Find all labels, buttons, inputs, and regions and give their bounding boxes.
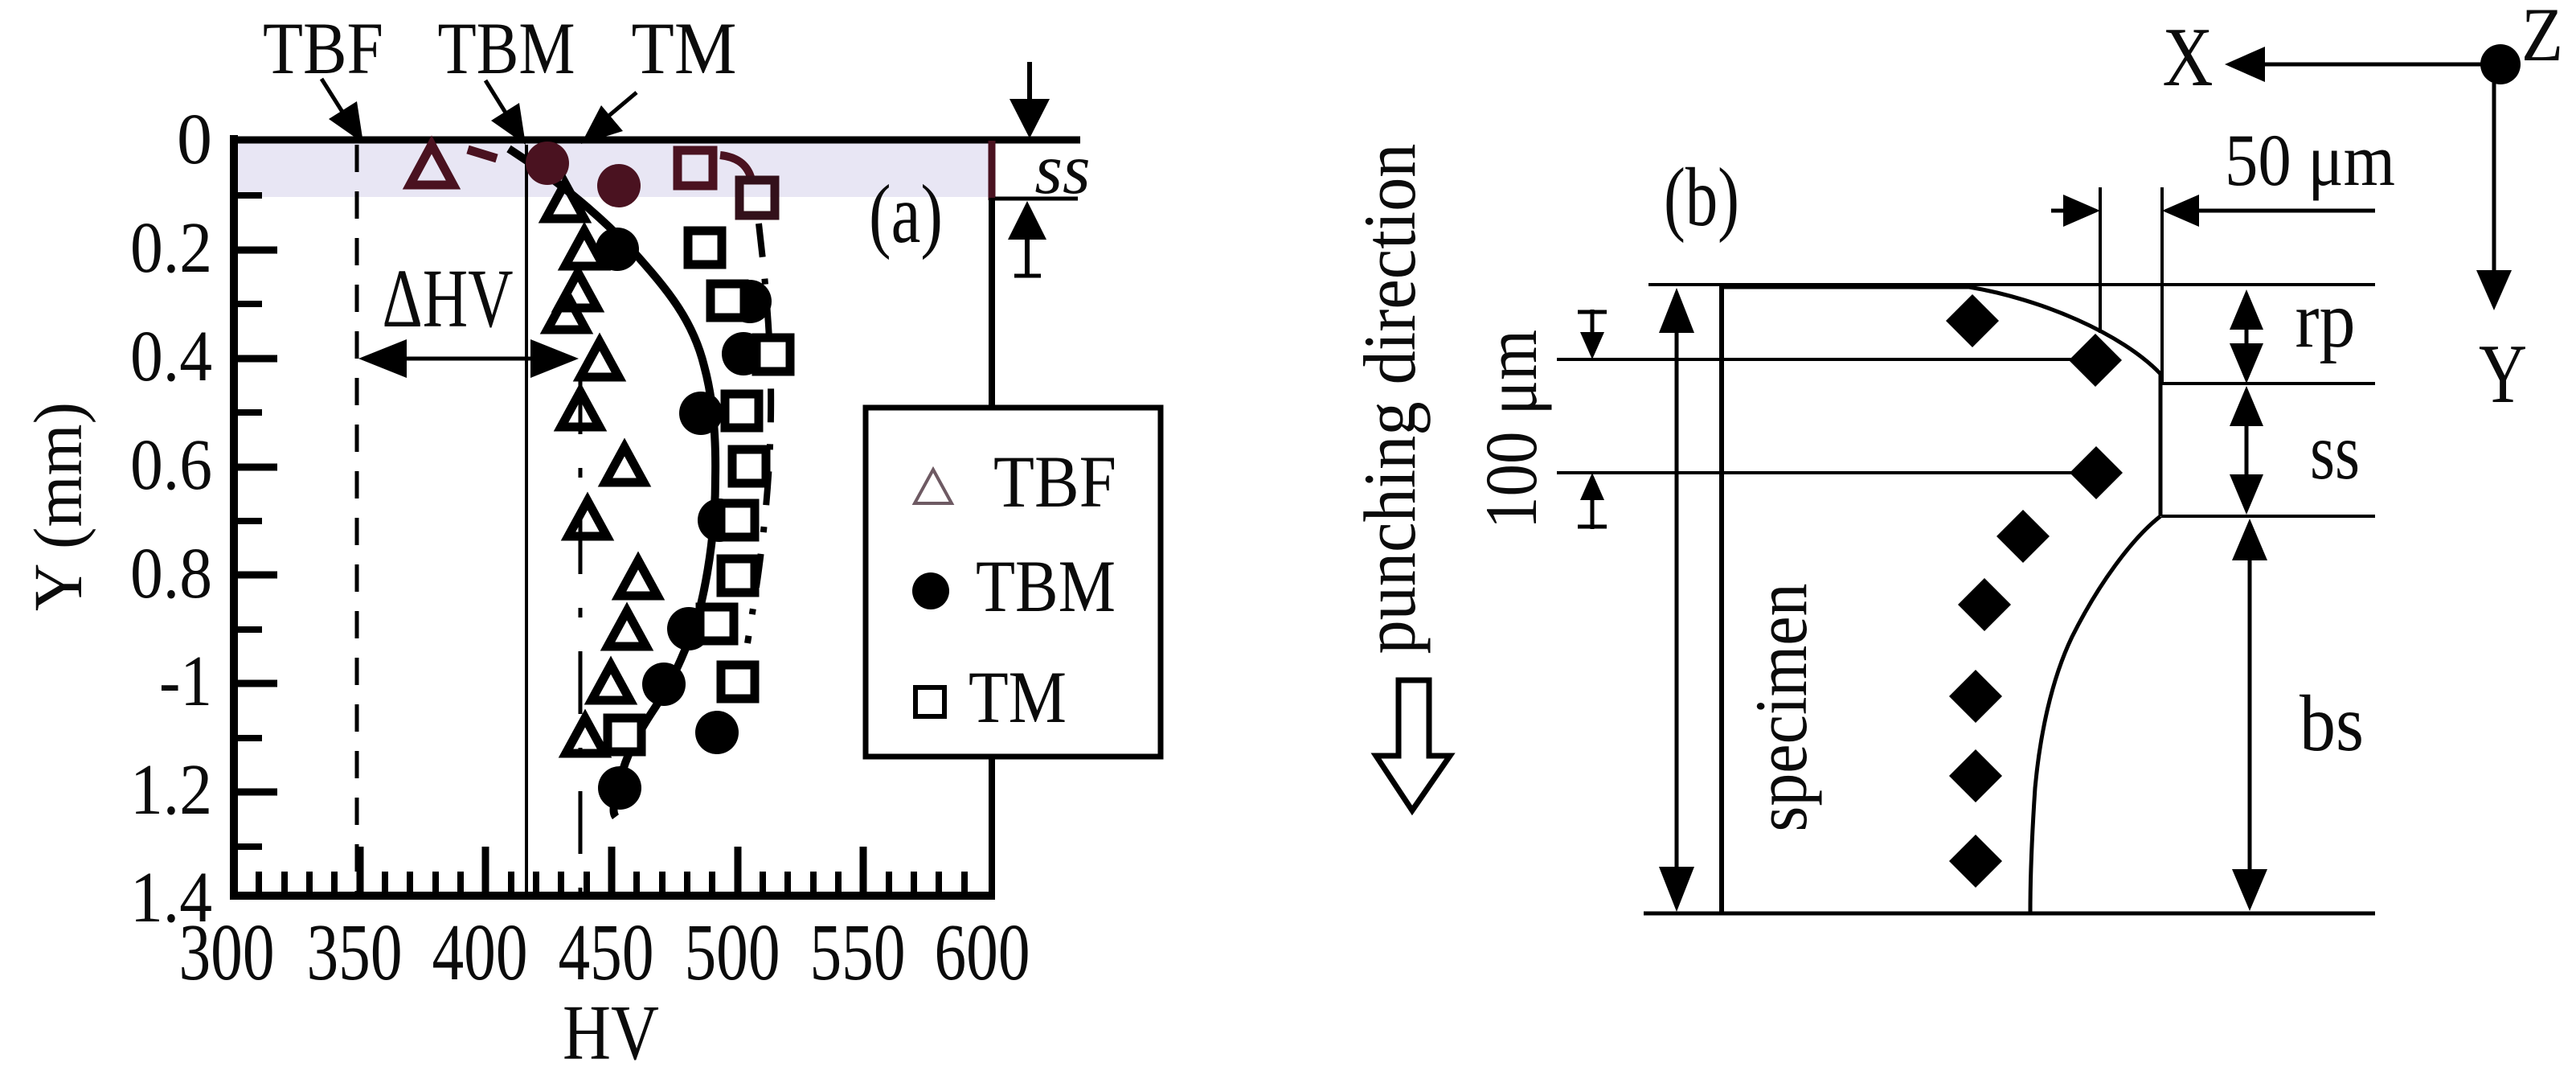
svg-text:TBF: TBF [993, 441, 1116, 523]
svg-text:TBM: TBM [438, 7, 575, 89]
svg-text:400: 400 [432, 907, 528, 997]
svg-text:rp: rp [2295, 275, 2356, 364]
TBM solid fit curve [509, 149, 715, 817]
svg-text:ss: ss [2310, 407, 2360, 496]
ss bottom arrow (up) [1025, 236, 1030, 277]
x-axis minor ticks [259, 872, 964, 892]
svg-text:ss: ss [1034, 130, 1090, 209]
y-axis major ticks [238, 250, 277, 792]
burnished (sheared) edge [2159, 372, 2163, 516]
svg-text:0: 0 [177, 100, 212, 179]
TM core-hardness long-dash line [579, 371, 583, 892]
svg-text:0.4: 0.4 [130, 317, 212, 396]
TBF maroon triangle marker (ss band) [410, 145, 453, 185]
svg-text:specimen: specimen [1740, 584, 1822, 832]
100 um dimension arrow (lower, points up) [1591, 494, 1595, 529]
100 um label (rotated) [1470, 330, 1552, 529]
50 um extension line (right) [2160, 187, 2164, 384]
svg-text:0.2: 0.2 [130, 208, 212, 288]
specimen bottom surface line [1644, 912, 2375, 916]
X axis arrow [2255, 63, 2496, 67]
TBF triangle markers [546, 183, 584, 219]
ss dimension double arrow [2230, 386, 2263, 426]
top axis line [231, 137, 1080, 144]
svg-text:TM: TM [632, 7, 737, 89]
TBM maroon circle marker 2 [597, 164, 641, 207]
svg-text:Y (mm): Y (mm) [19, 402, 96, 611]
TBM circle markers (lower) [698, 498, 741, 542]
punching direction label (rotated) [1349, 144, 1431, 654]
TBF core-hardness dashed line (HV 350) [355, 145, 359, 892]
right border line (upper, maroon in band) [989, 141, 996, 200]
svg-text:punching direction: punching direction [1349, 144, 1431, 654]
svg-text:Z: Z [2521, 0, 2563, 77]
svg-text:Y: Y [2479, 326, 2527, 421]
TBM circle markers [596, 228, 639, 271]
svg-text:-1: -1 [159, 642, 212, 721]
legend circle symbol [912, 572, 949, 609]
svg-text:(b): (b) [1664, 151, 1739, 244]
shaded surface (ss) band [235, 143, 989, 197]
svg-text:350: 350 [307, 907, 403, 997]
svg-text:450: 450 [559, 907, 654, 997]
svg-text:HV: HV [563, 990, 659, 1076]
svg-text:ΔHV: ΔHV [383, 252, 514, 345]
legend triangle symbol [915, 470, 952, 503]
50 um dimension arrows [2051, 209, 2064, 213]
svg-text:0.8: 0.8 [130, 534, 212, 613]
svg-text:X: X [2163, 10, 2214, 104]
TM dash-dot fit curve [747, 224, 771, 643]
Z origin dot [2480, 44, 2521, 84]
specimen left edge [1719, 286, 1724, 913]
hardness indent diamonds (panel b) [1946, 294, 1999, 347]
TM pointer arrow [601, 92, 637, 122]
specimen thickness double arrow [1675, 299, 1679, 901]
svg-text:TBF: TBF [263, 7, 383, 89]
TBM pointer arrow [485, 80, 512, 123]
svg-text:50 μm: 50 μm [2225, 119, 2395, 201]
svg-text:TBM: TBM [976, 545, 1116, 627]
TM maroon elbow segment [720, 155, 751, 177]
ss/bs boundary line [2161, 515, 2375, 518]
legend square symbol [915, 687, 944, 716]
measurement row line 1 (50 um depth) [1557, 358, 2075, 361]
svg-text:500: 500 [685, 907, 780, 997]
bs dimension double arrow [2248, 555, 2252, 876]
specimen top edge and rollover curve [1722, 287, 2160, 374]
svg-text:100 μm: 100 μm [1470, 330, 1552, 529]
measurement row line 2 (150 um depth) [1557, 471, 2075, 474]
y-axis (left) [230, 135, 238, 900]
punching direction hollow block arrow [1376, 680, 1450, 810]
ΔHV double arrow [378, 357, 563, 361]
svg-text:550: 550 [810, 907, 906, 997]
x-axis (bottom) [231, 892, 995, 900]
specimen label (rotated) [1740, 584, 1822, 832]
TM dark square marker 2 [739, 180, 775, 215]
ss band bottom reference line [995, 197, 1078, 201]
right border line (lower) [989, 753, 995, 896]
fracture edge curve [2030, 516, 2160, 913]
svg-text:600: 600 [935, 907, 1030, 997]
TM maroon square marker 1 [678, 150, 713, 186]
svg-text:(a): (a) [869, 168, 943, 261]
100 um dimension arrow (upper, points down) [1591, 310, 1595, 338]
rollover bottom boundary line (rp/ss) [2162, 382, 2375, 385]
svg-text:0.6: 0.6 [130, 425, 212, 505]
TM square markers (lower) [721, 503, 755, 537]
TM maroon dash segment (top) [468, 150, 497, 158]
ss top arrow (down) [1027, 62, 1032, 103]
svg-text:300: 300 [179, 907, 275, 997]
y-axis title Y (mm) [19, 402, 96, 611]
Y axis arrow [2492, 83, 2496, 273]
y-axis minor ticks [238, 195, 262, 847]
legend box [866, 408, 1161, 757]
50 um extension line (left) [2099, 187, 2102, 333]
rp dimension double arrow [2230, 289, 2263, 330]
right border line (middle) [989, 198, 995, 412]
svg-text:bs: bs [2300, 679, 2364, 768]
TBF pointer arrow [321, 79, 350, 125]
svg-text:1.2: 1.2 [130, 750, 212, 830]
TM square markers (upper) [688, 231, 722, 265]
TBM core-hardness thin solid line [525, 145, 528, 892]
svg-text:TM: TM [969, 656, 1067, 738]
specimen top surface reference line [1648, 283, 2375, 286]
TBM maroon circle marker 1 [526, 142, 569, 185]
x-axis major ticks [360, 847, 863, 892]
